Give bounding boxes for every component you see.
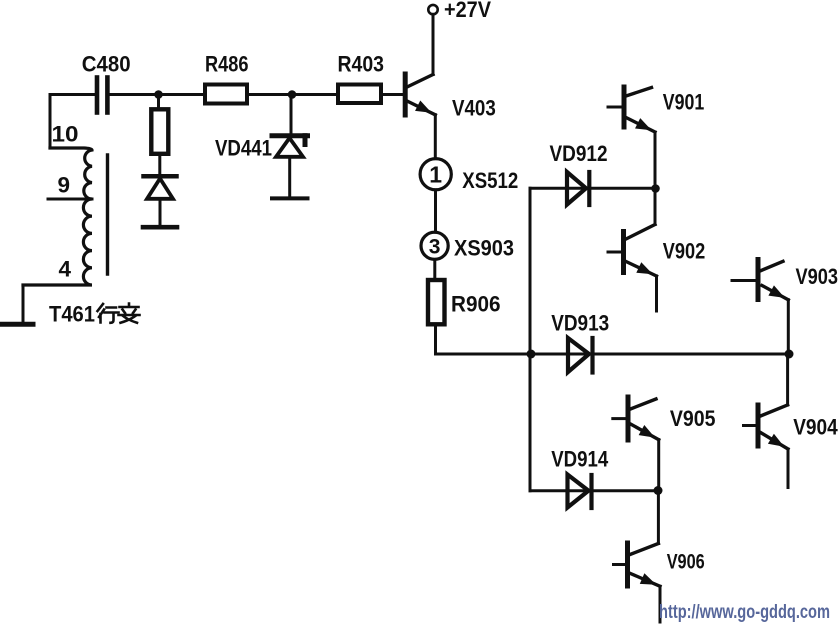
wire V901 emitter to node D bbox=[654, 132, 657, 189]
wire resistor to diode bbox=[158, 154, 161, 176]
wire VD441 to ground bbox=[288, 157, 291, 199]
svg-text:3: 3 bbox=[429, 236, 441, 259]
pin 9 wire bbox=[48, 198, 92, 201]
transistor V902 bbox=[608, 225, 657, 280]
diode VD912 bbox=[567, 172, 586, 205]
svg-text:1: 1 bbox=[429, 161, 442, 187]
wire diode to ground bbox=[159, 199, 162, 227]
wire V906 collector to node E bbox=[657, 491, 660, 544]
transistor V904 bbox=[744, 405, 789, 452]
wire V403 emitter down bbox=[434, 115, 437, 159]
wire R486 to node B bbox=[247, 93, 292, 96]
wire pin4 down to ground bbox=[22, 285, 25, 322]
connector XS903 pin 3 bbox=[421, 232, 448, 259]
+27V terminal bbox=[428, 5, 437, 14]
svg-text:VD912: VD912 bbox=[550, 141, 608, 166]
svg-text:XS903: XS903 bbox=[454, 235, 514, 260]
svg-text:V901: V901 bbox=[663, 90, 705, 115]
wire VD912 row bbox=[530, 187, 655, 190]
zener diode VD441 (triangle) bbox=[276, 138, 303, 157]
transformer T461 winding bbox=[23, 148, 92, 285]
wire R403 to V403 base bbox=[381, 93, 403, 96]
svg-text:http://www.go-gddq.com: http://www.go-gddq.com bbox=[659, 602, 830, 623]
wire V903 emitter to node F bbox=[787, 300, 790, 354]
ground (under VD441) bbox=[272, 196, 308, 200]
svg-text:V906: V906 bbox=[667, 551, 705, 574]
wire node B down to VD441 bbox=[290, 95, 293, 136]
svg-text:V902: V902 bbox=[663, 238, 706, 263]
node F junction dot bbox=[785, 350, 794, 359]
svg-text:9: 9 bbox=[58, 173, 71, 198]
svg-text:T461: T461 bbox=[49, 302, 95, 327]
svg-text:V403: V403 bbox=[452, 96, 496, 121]
svg-text:VD441: VD441 bbox=[215, 135, 272, 160]
main bus wire bbox=[436, 353, 789, 356]
resistor R906 bbox=[428, 280, 445, 324]
svg-text:C480: C480 bbox=[82, 51, 131, 76]
node E junction dot bbox=[654, 486, 663, 495]
transistor V906 bbox=[614, 543, 661, 590]
svg-text:R403: R403 bbox=[338, 51, 385, 76]
wire XS903 to R906 bbox=[433, 259, 436, 280]
wire node A to R486 bbox=[159, 93, 206, 96]
wire left vertical to pin 10 bbox=[49, 95, 52, 149]
wire V905 emitter to node E bbox=[657, 440, 660, 491]
wire VD914 row bbox=[530, 489, 659, 492]
wire between connectors bbox=[434, 190, 437, 232]
diode VD914 bbox=[568, 475, 589, 508]
svg-text:V905: V905 bbox=[670, 406, 716, 431]
wire top-left horizontal to C480 bbox=[50, 93, 95, 96]
ground (under diode) bbox=[143, 225, 177, 230]
node A junction dot bbox=[154, 90, 163, 99]
zener diode VD441 (cathode bar with hook) bbox=[272, 133, 308, 138]
svg-text:R486: R486 bbox=[205, 51, 249, 76]
wire V904 collector to node F bbox=[786, 354, 789, 405]
wire C480 to node A bbox=[110, 93, 159, 96]
wire V902 collector to node D bbox=[654, 189, 657, 225]
resistor R403 bbox=[338, 85, 381, 104]
svg-text:VD914: VD914 bbox=[551, 447, 608, 472]
transistor V903 bbox=[732, 260, 788, 303]
wire V904 emitter stub bbox=[787, 449, 790, 488]
T461 chinese chars 行变 bbox=[98, 304, 140, 323]
svg-text:R906: R906 bbox=[451, 292, 501, 317]
svg-text:10: 10 bbox=[52, 122, 79, 147]
resistor (unlabeled) below node A bbox=[151, 109, 168, 154]
diode VD913 bbox=[568, 338, 589, 372]
wire node B to R403 bbox=[292, 93, 338, 96]
ground (bottom-left) bbox=[0, 322, 33, 327]
branch vertical wire bbox=[529, 188, 532, 491]
capacitor C480 bbox=[97, 78, 107, 113]
svg-text:V904: V904 bbox=[793, 415, 838, 440]
transistor V901 bbox=[608, 87, 655, 135]
svg-text:V903: V903 bbox=[796, 264, 839, 289]
diode VD (cathode bar) bbox=[144, 174, 177, 179]
transistor V905 bbox=[613, 397, 659, 443]
wire V906 emitter stub bbox=[659, 586, 662, 622]
wire +27V down to V403 collector bbox=[432, 14, 435, 74]
svg-text:XS512: XS512 bbox=[462, 168, 518, 193]
svg-text:VD913: VD913 bbox=[551, 311, 609, 336]
node B junction dot bbox=[288, 90, 297, 99]
svg-text:4: 4 bbox=[59, 257, 72, 282]
node D junction dot bbox=[651, 184, 660, 193]
wire V902 emitter stub bbox=[655, 276, 658, 311]
resistor R486 bbox=[205, 85, 247, 104]
connector XS512 pin 1 bbox=[420, 159, 451, 190]
diode VD (triangle) bbox=[147, 179, 173, 199]
svg-text:+27V: +27V bbox=[444, 0, 491, 22]
wire R906 down to bus bbox=[434, 324, 437, 354]
wire node A down to resistor bbox=[157, 95, 160, 110]
transformer core bbox=[106, 155, 109, 274]
node C junction dot bbox=[527, 350, 536, 359]
transistor V403 bbox=[405, 74, 435, 118]
